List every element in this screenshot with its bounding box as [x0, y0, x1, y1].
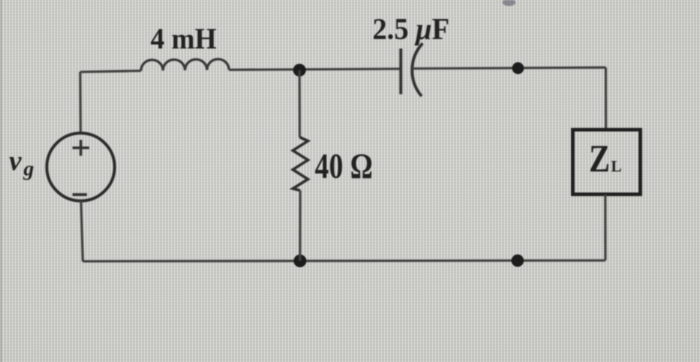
load box ZL — [573, 130, 641, 195]
minus sign — [73, 193, 87, 196]
wire middle branch upper — [298, 70, 301, 137]
wire source top vertical — [79, 72, 82, 133]
svg-text:4 mH: 4 mH — [151, 23, 217, 56]
wire capacitor to top-right corner — [413, 68, 606, 69]
svg-text:Z: Z — [589, 137, 610, 180]
wire source bottom vertical — [81, 201, 83, 261]
wire middle branch lower — [299, 191, 302, 261]
capacitor C 2.5uF curved plate — [412, 43, 423, 96]
wire inductor to capacitor — [229, 69, 401, 70]
bottom rail wire — [83, 259, 606, 262]
svg-text:2.5 μF: 2.5 μF — [373, 11, 450, 46]
resistor 40 ohm zigzag — [293, 137, 308, 190]
node dot bottom-right — [511, 254, 523, 266]
wire load to bottom rail — [604, 195, 607, 261]
wire right vertical to load — [605, 68, 608, 130]
svg-text:v: v — [9, 146, 22, 177]
node dot top-middle — [293, 64, 306, 77]
svg-text:g: g — [23, 157, 35, 181]
smudge top edge — [503, 0, 516, 6]
svg-text:L: L — [611, 159, 622, 176]
wire top-left horizontal — [80, 71, 141, 72]
node dot bottom-middle — [294, 255, 307, 268]
capacitor C 2.5uF left plate — [399, 49, 402, 95]
svg-text:40 Ω: 40 Ω — [315, 146, 373, 186]
plus sign — [73, 140, 90, 156]
node dot top-right — [512, 62, 524, 74]
inductor 4 mH coil — [141, 59, 229, 71]
voltage source circle — [47, 133, 115, 201]
